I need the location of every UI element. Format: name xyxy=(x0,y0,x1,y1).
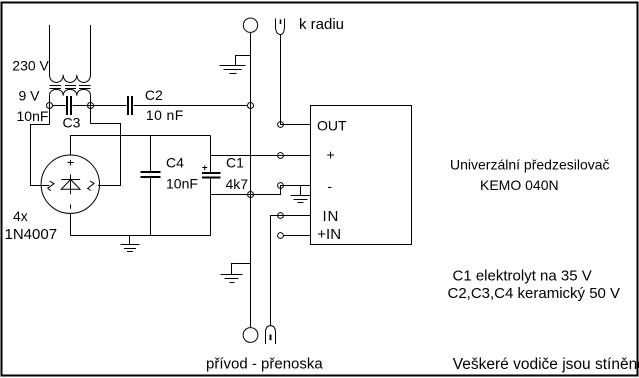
ground G3 on minus wire xyxy=(291,186,311,203)
wire right AC path to bridge xyxy=(91,124,121,186)
svg-text:4k7: 4k7 xyxy=(226,176,249,192)
wire left AC path to bridge xyxy=(31,125,50,186)
svg-text:10 nF: 10 nF xyxy=(146,107,184,123)
bridge AC tilde right xyxy=(88,181,94,190)
svg-text:+: + xyxy=(327,147,335,163)
node shield junction top xyxy=(248,103,254,109)
svg-text:+IN: +IN xyxy=(317,226,341,243)
capacitor C4 top lead xyxy=(150,136,152,172)
svg-text:C1 elektrolyt na 35 V: C1 elektrolyt na 35 V xyxy=(453,268,592,285)
node shield junction mid xyxy=(248,192,254,198)
transformer TR1 secondary stub right xyxy=(90,96,92,124)
transformer TR1 primary lead left xyxy=(49,25,51,75)
capacitor C1 bottom lead xyxy=(210,179,212,236)
svg-text:KEMO 040N: KEMO 040N xyxy=(480,177,559,193)
capacitor C2 plates xyxy=(128,96,132,115)
svg-text:C1: C1 xyxy=(226,155,244,171)
wire plus pin line xyxy=(211,155,312,157)
bridge plus mark xyxy=(68,160,74,166)
svg-text:C2,C3,C4 keramický 50 V: C2,C3,C4 keramický 50 V xyxy=(448,285,621,302)
connector shield circle bottom xyxy=(243,328,258,343)
wire bottom minus rail xyxy=(71,235,211,237)
svg-text:4x: 4x xyxy=(13,208,28,224)
wire plug to OUT xyxy=(281,35,312,125)
wire 9V rail left segment xyxy=(53,105,66,107)
svg-text:1N4007: 1N4007 xyxy=(5,226,58,243)
transformer TR1 secondary winding xyxy=(50,89,91,95)
svg-text:C4: C4 xyxy=(166,155,184,171)
connector shield circle top xyxy=(243,18,257,32)
bridge minus mark xyxy=(70,205,72,209)
svg-text:9 V: 9 V xyxy=(19,88,41,104)
svg-text:k radiu: k radiu xyxy=(299,16,344,33)
ground G1 near top connector xyxy=(220,56,251,74)
node minus terminal xyxy=(278,183,284,189)
ground G2 on bottom rail xyxy=(121,236,140,252)
svg-text:OUT: OUT xyxy=(317,118,347,134)
wire 9V rail middle segment xyxy=(73,105,127,107)
svg-text:přívod - přenoska: přívod - přenoska xyxy=(206,356,323,373)
op-amp module U1 KEMO 040N box xyxy=(311,106,412,245)
wire 9V rail right segment to shield junction xyxy=(134,105,248,107)
node plusIN terminal xyxy=(278,233,284,239)
connector plug prenoska xyxy=(266,326,276,344)
capacitor C1 plates xyxy=(202,173,221,178)
svg-text:-: - xyxy=(327,178,332,194)
wire plusIN to box xyxy=(283,235,311,237)
wire minus jog from C1 bottom through shield junction xyxy=(211,186,312,195)
capacitor C4 plates xyxy=(141,172,161,177)
svg-text:IN: IN xyxy=(323,208,340,225)
connector plug k-radiu xyxy=(276,19,285,35)
capacitor C3 plates xyxy=(67,96,71,115)
svg-text:10nF: 10nF xyxy=(17,108,49,124)
svg-text:C2: C2 xyxy=(145,87,163,103)
transformer TR1 primary winding xyxy=(50,75,91,83)
svg-text:230 V: 230 V xyxy=(12,58,49,74)
bridge internal diode xyxy=(61,174,80,194)
wire bridge plus rail xyxy=(71,136,211,156)
transformer TR1 core xyxy=(50,86,91,89)
svg-text:C3: C3 xyxy=(63,115,81,131)
node OUT terminal xyxy=(278,122,284,128)
capacitor C1 plus mark xyxy=(202,165,207,170)
wire IN from plug xyxy=(271,216,312,326)
bridge rectifier 4x 1N4007 circle xyxy=(41,155,99,213)
capacitor C1 top lead xyxy=(210,136,212,173)
svg-text:Univerzální předzesilovač: Univerzální předzesilovač xyxy=(450,157,610,173)
node secondary terminal right xyxy=(88,103,94,109)
ground G4 on shield vertical xyxy=(221,264,251,283)
transformer TR1 primary lead right xyxy=(90,25,92,75)
capacitor C4 bottom lead xyxy=(150,178,152,236)
bridge AC tilde left xyxy=(48,181,54,191)
node IN terminal xyxy=(278,213,284,219)
svg-text:10nF: 10nF xyxy=(166,176,198,192)
wire shield vertical xyxy=(250,32,252,328)
node plus terminal xyxy=(278,153,284,159)
svg-text:Veškeré vodiče jsou stíněné.: Veškeré vodiče jsou stíněné. xyxy=(453,356,639,373)
node secondary terminal left xyxy=(47,103,53,109)
wire bridge bottom stub xyxy=(70,213,72,235)
transformer TR1 secondary stub left xyxy=(49,96,51,125)
